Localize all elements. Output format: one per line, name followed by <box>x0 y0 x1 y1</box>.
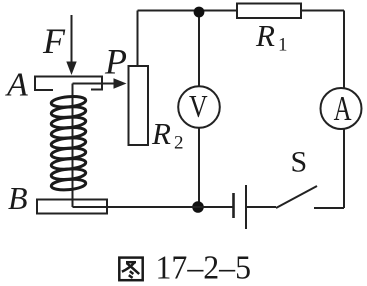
label R1 <box>255 18 288 56</box>
svg-text:R: R <box>151 116 171 151</box>
svg-text:A: A <box>334 89 352 128</box>
resistor R1 <box>237 4 301 19</box>
wire: top horizontal from R2 riser to right edge <box>138 10 345 12</box>
svg-text:F: F <box>42 21 66 61</box>
voltmeter V <box>178 86 220 128</box>
rheostat R2 <box>129 66 149 145</box>
wire: battery to switch <box>246 206 276 208</box>
junction node (bottom) <box>192 201 204 213</box>
force arrow F <box>66 15 76 75</box>
svg-text:R: R <box>255 18 275 53</box>
svg-text:A: A <box>5 67 28 104</box>
spring coil <box>51 95 86 191</box>
spring rod (wire from plate A down to plate B) <box>72 84 74 201</box>
wire: left riser from top wire down to R2 <box>137 11 139 67</box>
svg-text:S: S <box>291 146 308 179</box>
wire: bottom horizontal to battery <box>73 206 234 208</box>
svg-text:V: V <box>189 90 208 125</box>
caption: character 图 (drawn) <box>119 258 142 281</box>
wire: voltmeter branch vertical <box>198 12 200 207</box>
switch S <box>276 186 344 208</box>
svg-text:1: 1 <box>278 35 288 56</box>
svg-text:B: B <box>8 180 28 216</box>
svg-text:17–2–5: 17–2–5 <box>156 250 252 286</box>
wire: right side vertical (through ammeter) <box>343 11 345 209</box>
wiper arrow P (slider of rheostat) <box>73 78 127 88</box>
label R2 <box>151 116 184 154</box>
ammeter A <box>321 88 362 129</box>
junction node (top) <box>194 7 205 18</box>
plate A (top plate of sensor) <box>35 77 102 91</box>
battery cell <box>234 185 247 229</box>
svg-text:P: P <box>104 42 127 82</box>
wire: rod into plate B <box>72 200 74 208</box>
svg-text:2: 2 <box>174 133 184 154</box>
plate B (bottom plate) <box>37 200 107 214</box>
